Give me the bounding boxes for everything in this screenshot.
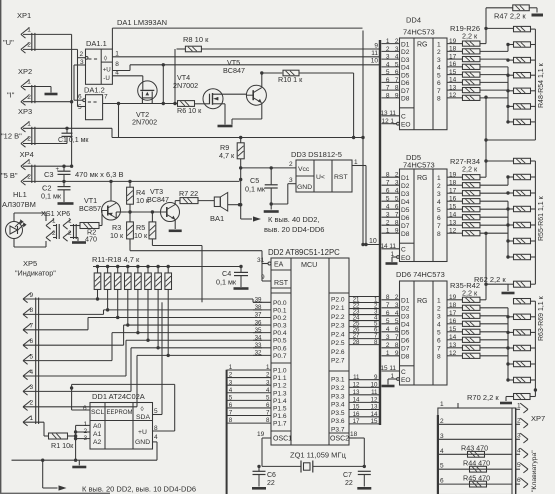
svg-text:D6: D6 [401, 338, 410, 345]
R1 to ground vertical [75, 425, 77, 460]
svg-text:7: 7 [104, 94, 108, 101]
resistor R11 [94, 273, 101, 290]
VT5 emitter to ground [261, 103, 263, 119]
svg-text:EEPROM: EEPROM [107, 410, 133, 416]
resistor 2k2 #20 [462, 49, 480, 54]
svg-text:1: 1 [386, 38, 390, 45]
svg-text:22: 22 [267, 480, 275, 487]
svg-text:D8: D8 [401, 231, 410, 238]
svg-text:EO: EO [401, 255, 411, 262]
svg-text:R10 1 к: R10 1 к [278, 75, 303, 84]
supervisor DD3 DS1812-5 [289, 150, 358, 192]
svg-text:DD4: DD4 [406, 16, 421, 25]
svg-text:8: 8 [395, 85, 399, 92]
resistor R9 [237, 143, 244, 159]
svg-text:C1 0,1 мк: C1 0,1 мк [58, 137, 89, 144]
connector ХР3 [1, 107, 35, 147]
svg-text:P0.3: P0.3 [273, 323, 287, 330]
svg-text:74HC573: 74HC573 [403, 161, 435, 170]
svg-text:D5: D5 [401, 207, 410, 214]
svg-text:P1.1: P1.1 [273, 375, 287, 382]
svg-text:D3: D3 [401, 314, 410, 321]
wire R10 right then down [299, 72, 354, 74]
svg-text:12: 12 [449, 227, 457, 234]
svg-text:C: C [401, 114, 406, 121]
svg-text:D3: D3 [401, 57, 410, 64]
svg-text:P3.2: P3.2 [331, 385, 345, 392]
svg-text:2: 2 [80, 51, 84, 58]
svg-text:R48-R54 1,1 к: R48-R54 1,1 к [538, 62, 545, 108]
svg-text:19: 19 [449, 294, 457, 301]
svg-text:3: 3 [386, 334, 390, 341]
wires DA1.1 inputs [77, 49, 79, 106]
wire XP6 row2 to ground [53, 237, 57, 239]
svg-text:C3: C3 [44, 170, 54, 179]
resistor R45 [470, 481, 487, 487]
svg-text:7: 7 [386, 180, 390, 187]
svg-text:P1.0: P1.0 [273, 368, 287, 375]
svg-text:HL1: HL1 [13, 190, 27, 199]
svg-text:выв. 20 DD4-DD6: выв. 20 DD4-DD6 [264, 225, 324, 234]
svg-text:3: 3 [30, 384, 34, 391]
svg-text:1: 1 [437, 175, 441, 182]
svg-text:EO: EO [401, 122, 411, 129]
svg-text:D1: D1 [401, 41, 410, 48]
svg-text:1: 1 [437, 298, 441, 305]
svg-text:RG: RG [417, 298, 428, 305]
resistor 2k2 #39 [462, 329, 480, 334]
svg-text:XS1 ХР6: XS1 ХР6 [41, 209, 70, 218]
svg-text:К выв. 40 DD2,: К выв. 40 DD2, [268, 215, 320, 224]
svg-text:5: 5 [437, 330, 441, 337]
svg-text:1: 1 [386, 350, 390, 357]
DD3 RST output route [352, 165, 366, 167]
svg-text:6: 6 [386, 310, 390, 317]
svg-text:R47 2,2 к: R47 2,2 к [494, 12, 526, 21]
svg-text:2: 2 [52, 230, 56, 237]
svg-text:SDA: SDA [136, 414, 150, 421]
svg-text:1: 1 [27, 121, 31, 128]
svg-text:7: 7 [437, 346, 441, 353]
wire R6 to VT4 gate [195, 103, 210, 105]
svg-text:2N7002: 2N7002 [173, 81, 198, 90]
svg-text:"12 В": "12 В" [1, 132, 22, 141]
svg-text:12: 12 [449, 92, 457, 99]
resistor 2k2 #25 [462, 88, 480, 93]
svg-text:10 к: 10 к [134, 231, 148, 240]
vertical mid stub [118, 104, 120, 138]
resistor 2k2 #36 [462, 305, 480, 310]
resistor 2k2 #41 [462, 345, 480, 350]
routing rect around DD1 [80, 383, 175, 385]
resistor 1k1 col2 row6 [514, 119, 531, 124]
svg-text:5: 5 [395, 196, 399, 203]
ladder DD4 bottom chain to DD5 [534, 122, 536, 140]
vertical node to row10 [162, 65, 164, 104]
connector XP7 [516, 402, 546, 492]
svg-text:SCL: SCL [91, 409, 104, 416]
resistor 1k1 col2 row2 [514, 190, 531, 195]
wire SCL up to XP5 pin2 net [72, 383, 80, 385]
svg-text:7: 7 [395, 77, 399, 84]
wire XP1 pin1 [23, 33, 72, 35]
resistor 2k2 #38 [462, 321, 480, 326]
vertical from top rail [362, 31, 364, 245]
resistor R16 [145, 273, 152, 290]
resistor R14 [125, 273, 132, 290]
C6 ground [252, 487, 266, 490]
DD5 EO ground [392, 256, 397, 258]
svg-text:19: 19 [257, 431, 265, 438]
svg-text:DA1.2: DA1.2 [84, 86, 105, 95]
svg-text:14: 14 [449, 77, 457, 84]
svg-text:8: 8 [395, 220, 399, 227]
resistor 1k1 col2 row2 [514, 330, 531, 335]
svg-text:10 к: 10 к [110, 231, 124, 240]
svg-text:OSC1: OSC1 [273, 436, 292, 443]
svg-text:D7: D7 [401, 346, 410, 353]
wires DD1 A pins [76, 424, 90, 426]
resistor R2 [80, 223, 99, 229]
svg-text:2: 2 [517, 417, 521, 424]
svg-text:6: 6 [395, 204, 399, 211]
svg-text:D6: D6 [401, 80, 410, 87]
svg-text:0,1 мк: 0,1 мк [245, 185, 266, 194]
resistor R3 [127, 222, 134, 239]
ladder DD5 bottom to R62 [534, 257, 536, 284]
svg-text:P3.7: P3.7 [331, 427, 345, 434]
svg-text:D5: D5 [401, 72, 410, 79]
ladder R27-R34 [450, 157, 545, 260]
svg-text:5: 5 [386, 318, 390, 325]
svg-text:8: 8 [30, 307, 34, 314]
svg-text:3: 3 [386, 54, 390, 61]
C5 ground [270, 204, 272, 210]
wire row10 long [130, 64, 379, 66]
svg-text:15: 15 [449, 326, 457, 333]
ladder DD5 top link [485, 161, 487, 177]
svg-text:2: 2 [386, 220, 390, 227]
connector XP5 [15, 259, 56, 426]
resistor R13 [114, 273, 121, 290]
svg-text:RST: RST [334, 174, 348, 181]
svg-text:"5 В": "5 В" [1, 171, 18, 180]
svg-text:1: 1 [27, 158, 31, 165]
svg-text:P2.2: P2.2 [331, 314, 345, 321]
svg-text:9: 9 [395, 92, 399, 99]
VT4 source to ground [213, 103, 226, 105]
svg-text:BC847: BC847 [147, 195, 169, 204]
connector XS1 XP6 [41, 209, 76, 241]
wire XP4 pin1 5V [23, 165, 72, 167]
svg-text:P3.5: P3.5 [331, 410, 345, 417]
capacitor C3 electrolytic [58, 170, 71, 172]
svg-text:3: 3 [437, 314, 441, 321]
DD4 EO wire from bus [382, 123, 397, 125]
resistor R7 [180, 198, 198, 204]
svg-text:22: 22 [345, 480, 353, 487]
svg-text:P1.2: P1.2 [273, 383, 287, 390]
vertical net x71.6 [71, 34, 73, 166]
svg-text:A0: A0 [93, 423, 102, 430]
wire XP3 pin2 [23, 143, 67, 145]
svg-text:A1: A1 [93, 431, 102, 438]
svg-text:R1 10к: R1 10к [51, 441, 74, 450]
svg-text:P3.3: P3.3 [331, 393, 345, 400]
svg-text:16: 16 [449, 61, 457, 68]
svg-text:17: 17 [449, 310, 457, 317]
svg-text:DD1 AT24C02A: DD1 AT24C02A [92, 392, 145, 401]
svg-text:P2.3: P2.3 [331, 323, 345, 330]
svg-text:9: 9 [395, 228, 399, 235]
svg-text:P2.5: P2.5 [331, 340, 345, 347]
svg-text:P1.4: P1.4 [273, 398, 287, 405]
svg-text:5: 5 [395, 61, 399, 68]
svg-text:D1: D1 [401, 175, 410, 182]
resistor 2k2 #31 [462, 207, 480, 212]
svg-text:-U: -U [103, 75, 110, 82]
svg-text:74HC573: 74HC573 [403, 28, 435, 37]
svg-text:BC847: BC847 [223, 66, 245, 75]
svg-text:1: 1 [27, 79, 31, 86]
svg-text:3: 3 [440, 433, 444, 440]
ladder DD5 bottom chain to DD6 [485, 233, 487, 284]
svg-text:4: 4 [437, 322, 441, 329]
svg-text:1: 1 [386, 228, 390, 235]
keyboard box [438, 401, 516, 494]
svg-text:R8 10 к: R8 10 к [183, 35, 209, 44]
R70 ground [500, 402, 512, 405]
svg-text:D4: D4 [401, 199, 410, 206]
svg-text:14 11: 14 11 [380, 243, 396, 250]
svg-text:8: 8 [386, 172, 390, 179]
resistor R1 [49, 433, 68, 439]
svg-text:1: 1 [84, 421, 88, 428]
op-amp DA1.1 [80, 39, 120, 84]
svg-text:D2: D2 [401, 49, 410, 56]
svg-text:P2.0: P2.0 [331, 297, 345, 304]
svg-text:14: 14 [449, 211, 457, 218]
svg-text:5: 5 [386, 196, 390, 203]
svg-text:6: 6 [437, 338, 441, 345]
wire bus into keyboard [457, 403, 459, 408]
svg-text:19: 19 [449, 171, 457, 178]
svg-text:= =: = = [88, 99, 98, 106]
svg-text:RG: RG [417, 42, 428, 49]
svg-text:P0.4: P0.4 [273, 330, 287, 337]
svg-text:0,1 мк: 0,1 мк [216, 278, 237, 287]
svg-text:ХР2: ХР2 [18, 67, 32, 76]
wire R3 bottom to EA feed [129, 239, 131, 251]
svg-text:4: 4 [386, 326, 390, 333]
wire R2 to VT1 base [99, 225, 102, 227]
svg-text:6: 6 [440, 478, 444, 485]
wire DD1 SDA pin5 [153, 414, 163, 416]
wire DA1.1 pin4 -U down to VT2 [112, 75, 142, 77]
resistor 2k2 #32 [462, 215, 480, 220]
wire XP1 pin2 [23, 48, 78, 50]
svg-text:8: 8 [386, 294, 390, 301]
svg-text:2: 2 [27, 136, 31, 143]
svg-text:"Индикатор": "Индикатор" [15, 269, 56, 278]
svg-text:10: 10 [369, 238, 377, 245]
svg-text:ХР7: ХР7 [531, 414, 545, 423]
svg-text:= =: = = [88, 56, 98, 63]
wire DD1 SCL [72, 409, 90, 411]
resistor 2k2 #34 [462, 231, 480, 236]
svg-text:A2: A2 [93, 439, 102, 446]
svg-text:P0.6: P0.6 [273, 345, 287, 352]
capacitor C5 [265, 184, 278, 186]
svg-text:BC857: BC857 [79, 204, 101, 213]
svg-text:470 мк х 6,3 В: 470 мк х 6,3 В [75, 170, 123, 179]
svg-text:8: 8 [437, 231, 441, 238]
svg-text:EA: EA [274, 262, 284, 269]
svg-text:P0.0: P0.0 [273, 300, 287, 307]
svg-text:4: 4 [517, 447, 521, 454]
svg-text:4: 4 [395, 54, 399, 61]
resistor 1k1 col2 row0 [514, 299, 531, 304]
svg-text:9: 9 [395, 350, 399, 357]
svg-text:P0.5: P0.5 [273, 338, 287, 345]
svg-text:15: 15 [449, 203, 457, 210]
rail 12V y137.5 [112, 137, 363, 139]
svg-text:1: 1 [517, 402, 521, 409]
svg-text:17: 17 [449, 187, 457, 194]
wire DD1 +U pin8 [153, 430, 175, 432]
svg-text:D8: D8 [401, 96, 410, 103]
ladder R19-R26 [450, 24, 545, 125]
svg-text:31: 31 [257, 257, 265, 264]
speaker BA1 [214, 197, 220, 207]
svg-text:C7: C7 [343, 472, 352, 479]
svg-text:C: C [401, 247, 406, 254]
svg-text:RG: RG [417, 175, 428, 182]
svg-text:D8: D8 [401, 354, 410, 361]
svg-text:P1.3: P1.3 [273, 390, 287, 397]
op-amp DA1.2 [78, 86, 108, 120]
svg-text:4: 4 [386, 61, 390, 68]
svg-text:2N7002: 2N7002 [132, 118, 157, 127]
resistor 2k2 #33 [462, 223, 480, 228]
ladder R35-R42 [450, 281, 545, 383]
svg-text:4: 4 [440, 448, 444, 455]
svg-text:2: 2 [386, 342, 390, 349]
svg-text:R55-R61 1,1 к: R55-R61 1,1 к [538, 195, 545, 241]
svg-text:P0.7: P0.7 [273, 353, 287, 360]
svg-text:2: 2 [68, 230, 72, 237]
svg-text:5: 5 [30, 353, 34, 360]
resistor 2k2 #28 [462, 183, 480, 188]
LED HL1 [2, 190, 36, 239]
svg-text:2: 2 [437, 183, 441, 190]
wire XP4 pin2 rail 5V [23, 180, 240, 182]
svg-text:OSC2: OSC2 [330, 436, 349, 443]
ladder DD6 top link [485, 284, 487, 300]
svg-text:19: 19 [449, 38, 457, 45]
svg-text:2: 2 [395, 172, 399, 179]
wire R5 bottom route [152, 245, 202, 247]
resistor 2k2 #24 [462, 80, 480, 85]
svg-text:R43 470: R43 470 [461, 444, 488, 453]
svg-text:3: 3 [386, 212, 390, 219]
svg-text:DD6 74HC573: DD6 74HC573 [396, 270, 445, 279]
svg-text:DA1.1: DA1.1 [86, 39, 107, 48]
svg-text:5: 5 [517, 462, 521, 469]
svg-text:6: 6 [30, 338, 34, 345]
svg-text:6: 6 [83, 405, 87, 412]
svg-text:2: 2 [289, 161, 293, 168]
resistor R5 [149, 222, 156, 239]
svg-text:EO: EO [401, 377, 411, 384]
resistor 1k1 col2 row5 [514, 104, 531, 109]
svg-text:13 11: 13 11 [380, 110, 396, 117]
resistor 1k1 col2 row5 [514, 238, 531, 243]
wire XP2 pin1 to ground [23, 86, 51, 88]
svg-text:GND: GND [297, 184, 312, 191]
svg-text:+U: +U [138, 429, 147, 436]
resistor 2k2 #23 [462, 72, 480, 77]
resistor R44 [470, 466, 487, 472]
VT3 collector to R7 [174, 201, 176, 205]
svg-text:R70 2,2 к: R70 2,2 к [467, 393, 499, 402]
svg-text:2: 2 [30, 400, 34, 407]
svg-text:2,2 к: 2,2 к [462, 165, 478, 174]
svg-text:7: 7 [30, 323, 34, 330]
svg-text:0,1 мк: 0,1 мк [41, 192, 62, 201]
svg-text:8: 8 [437, 96, 441, 103]
wires DA1.2 inputs [74, 99, 83, 101]
resistor R4 [127, 187, 134, 204]
rail above R11-R18 [93, 266, 241, 268]
wire R8 left vertical [177, 48, 186, 50]
svg-text:13: 13 [449, 342, 457, 349]
svg-text:ХР1: ХР1 [17, 11, 31, 20]
ground under C2 [58, 202, 74, 205]
svg-text:ХР5: ХР5 [23, 259, 37, 268]
resistor 2k2 #21 [462, 57, 480, 62]
resistor 2k2 #29 [462, 191, 480, 196]
wire R8 right row9 [201, 48, 379, 50]
svg-text:3: 3 [395, 46, 399, 53]
resistor R17 [155, 273, 162, 290]
svg-text:5: 5 [78, 104, 82, 111]
wire DA1.1 pin8 +U to row10 [112, 70, 130, 72]
resistor 1k1 col2 row4 [514, 88, 531, 93]
ground near XP2 [45, 93, 58, 96]
svg-text:18: 18 [449, 46, 457, 53]
mcu DD2 box [268, 248, 349, 445]
VT4 drain to VT5 base [213, 93, 247, 95]
svg-text:6: 6 [386, 77, 390, 84]
capacitor C6 [257, 465, 260, 468]
svg-text:13: 13 [449, 84, 457, 91]
svg-text:5: 5 [395, 318, 399, 325]
resistor 1k1 col2 row4 [514, 361, 531, 366]
svg-text:16: 16 [449, 318, 457, 325]
svg-text:P3.4: P3.4 [331, 402, 345, 409]
svg-text:P2.7: P2.7 [331, 358, 345, 365]
eeprom DD1 AT24C02A [83, 392, 158, 449]
wires XP5 to port P0 [23, 298, 253, 300]
svg-text:2: 2 [437, 306, 441, 313]
mcu right pin rows P2 [349, 296, 379, 298]
node R3 R4 junction [128, 210, 131, 213]
svg-text:4: 4 [437, 65, 441, 72]
svg-text:P0.1: P0.1 [273, 307, 287, 314]
svg-text:GND: GND [135, 439, 150, 446]
wire DA1.1 output row11 [112, 56, 379, 58]
